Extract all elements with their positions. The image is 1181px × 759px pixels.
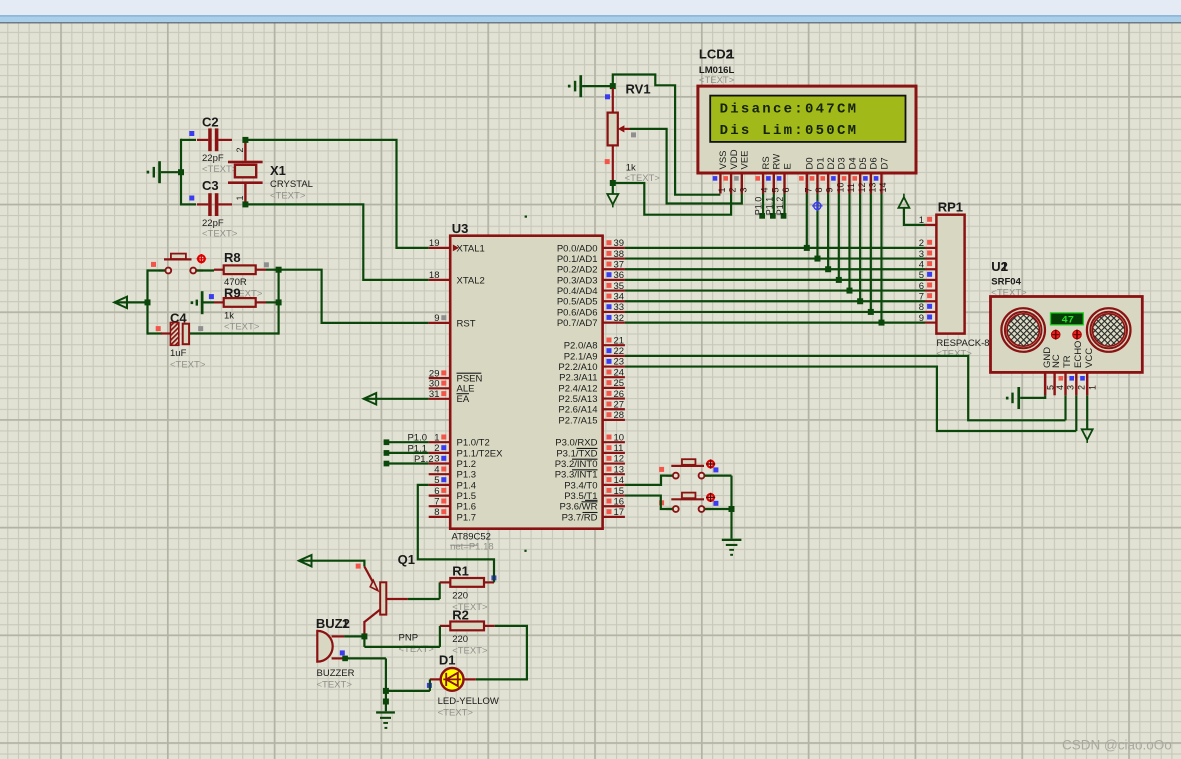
svg-text:P1.4: P1.4 (457, 480, 477, 491)
wire reset node vertical (148, 270, 279, 335)
svg-text:8: 8 (814, 187, 824, 192)
marker U3 pin 14 red (607, 477, 612, 482)
wire Q1 base to R1/R2 (408, 582, 440, 599)
marker R8 gray (264, 262, 269, 267)
origin dot near LCD (525, 216, 527, 218)
U3 pin 17 P3.7/RD (562, 507, 625, 523)
LCD pin 7 D0 (803, 157, 815, 193)
junction Q1 collector (361, 633, 367, 639)
svg-text:27: 27 (614, 399, 625, 410)
marker U3 pin 32 blue (607, 315, 612, 320)
terminal square LCD P1.0 (759, 213, 765, 219)
svg-text:XTAL1: XTAL1 (457, 243, 485, 254)
wire LCD P1.1 net (773, 194, 775, 216)
svg-text:38: 38 (614, 249, 625, 260)
buzzer BUZ1 (316, 616, 355, 691)
top toolbar strip (0, 0, 1181, 23)
svg-text:39: 39 (614, 238, 625, 249)
U3 pin 36 P0.3/AD3 (557, 270, 625, 286)
marker D1 blue (427, 683, 432, 688)
U3 pin 38 P0.1/AD1 (557, 249, 625, 265)
net label P1.0 (407, 433, 427, 444)
svg-text:P2.4/A12: P2.4/A12 (558, 383, 597, 394)
U3 pin 14 P3.4/T0 (564, 475, 625, 491)
svg-text:1uF: 1uF (170, 348, 187, 359)
marker U3 pin 10 red (607, 435, 612, 440)
crystal X1 (228, 140, 313, 205)
svg-text:10: 10 (614, 432, 625, 443)
svg-text:P3.1/TXD: P3.1/TXD (556, 448, 597, 459)
svg-text:ALE: ALE (457, 384, 475, 395)
junction R8 node (276, 267, 282, 273)
LCD pin 13 D6 (867, 157, 879, 193)
wire P0.7 to RP1 pin 9 (625, 321, 925, 323)
svg-text:P1.6: P1.6 (457, 502, 477, 513)
svg-text:P2.6/A14: P2.6/A14 (558, 405, 597, 416)
wire LCD D0 to P0.0 (806, 194, 808, 248)
svg-text:P3.3/INT1: P3.3/INT1 (555, 470, 598, 481)
marker button reset red (151, 262, 156, 267)
svg-text:P1.2: P1.2 (414, 454, 434, 465)
junction ground node (383, 699, 389, 705)
LCD pin 10 D3 (835, 157, 847, 193)
wire XTAL2 net (248, 204, 429, 280)
svg-text:36: 36 (614, 270, 625, 281)
X1 pin number 1 (235, 195, 245, 200)
svg-text:<TEXT>: <TEXT> (170, 359, 206, 370)
marker LCD pin 7 red (799, 176, 804, 181)
lcd LCD2 labels (699, 47, 735, 86)
U3 pin 19 XTAL1 (429, 238, 485, 254)
svg-text:18: 18 (429, 270, 440, 281)
svg-text:NC: NC (1051, 354, 1062, 368)
svg-text:CRYSTAL: CRYSTAL (270, 179, 313, 190)
svg-text:24: 24 (614, 367, 625, 378)
svg-text:1: 1 (1001, 259, 1008, 274)
svg-text:7: 7 (803, 187, 813, 192)
marker LCD pin 8 red (810, 176, 815, 181)
wire D1 cathode to ground node (386, 679, 430, 691)
svg-text:E: E (782, 163, 793, 169)
terminal square LCD P1.2 (781, 213, 787, 219)
ground symbol near RV1 (568, 75, 582, 97)
U3 pin 31 EA (429, 389, 470, 405)
svg-text:2: 2 (728, 187, 738, 192)
sensor U2 body (991, 297, 1143, 373)
junction X1 top (242, 137, 248, 143)
svg-text:<TEXT>: <TEXT> (452, 645, 488, 656)
wire RV1 wiper to LCD VEE (630, 129, 742, 204)
svg-text:P2.3/A11: P2.3/A11 (559, 373, 597, 384)
wire P0.5 to RP1 pin 7 (625, 300, 925, 302)
U3 pin 28 P2.7/A15 (558, 410, 624, 426)
wire LCD P1.2 net (783, 194, 785, 216)
power symbol at R9 left (191, 291, 214, 314)
wire P1.2 net stub (386, 462, 428, 464)
svg-text:11: 11 (614, 443, 624, 454)
marker LCD pin 4 red (755, 176, 760, 181)
wire collector to R2 (364, 626, 440, 647)
junction X1 bottom (242, 201, 248, 207)
blue origin crosshair (812, 201, 823, 212)
svg-text:13: 13 (867, 182, 877, 192)
marker button B2 red (659, 500, 664, 505)
svg-text:VCC: VCC (1084, 348, 1095, 368)
wire buzzer top to collector (344, 635, 362, 637)
svg-text:22pF: 22pF (202, 153, 224, 164)
marker U3 pin 11 red (607, 445, 612, 450)
wire P0.1 to RP1 pin 3 (625, 257, 925, 259)
marker RP1 pin 4 red (927, 261, 932, 266)
wire U2 GND to ground (1020, 395, 1045, 398)
U3 pin 2 P1.1/T2EX (429, 443, 503, 459)
svg-text:9: 9 (919, 313, 924, 324)
svg-text:D7: D7 (879, 157, 890, 169)
U3 pin 27 P2.6/A14 (558, 399, 624, 415)
U3 pin 15 P3.5/T1 (564, 486, 625, 502)
marker C2 pin blue (189, 131, 194, 136)
marker BUZ blue (340, 650, 345, 655)
svg-text:ECHO: ECHO (1073, 341, 1084, 368)
svg-text:6: 6 (919, 281, 924, 292)
U2 pin 5 GND (1042, 347, 1056, 396)
push button B1 (666, 459, 711, 478)
svg-text:<TEXT>: <TEXT> (270, 190, 306, 201)
svg-text:P1.1/T2EX: P1.1/T2EX (457, 448, 504, 459)
marker U3 pin 9 gray (441, 315, 446, 320)
U3 pin 25 P2.4/A12 (558, 378, 624, 394)
marker button B1 blue (713, 467, 718, 472)
U3 pin 16 P3.6/WR (559, 496, 624, 512)
svg-text:37: 37 (614, 259, 625, 270)
junction D6/P0.6 (868, 309, 874, 315)
U3 pin 30 ALE (429, 379, 475, 395)
svg-text:1: 1 (1087, 385, 1097, 390)
marker U3 pin 33 blue (607, 304, 612, 309)
marker U3 pin 25 red (607, 380, 612, 385)
LCD pin 11 D4 (846, 157, 858, 193)
potentiometer RV1 (608, 81, 661, 184)
U3 pin 34 P0.5/AD5 (557, 291, 625, 307)
RP1 pin 8 (919, 302, 937, 313)
terminal square P1.1 (384, 450, 390, 456)
wire buttons to ground (705, 476, 732, 539)
wire P1.1 net stub (386, 452, 428, 454)
wire P2.2 to ECHO (625, 367, 1076, 431)
svg-text:4: 4 (434, 464, 439, 475)
wire buzzer bottom to ground (345, 658, 386, 711)
wire P3.4 to button B1 (625, 476, 673, 485)
wire LCD D6 to P0.6 (870, 194, 872, 312)
svg-text:6: 6 (781, 187, 791, 192)
wire ECHO net (1075, 395, 1077, 431)
U3 pin 29 PSEN (429, 368, 483, 384)
U3 pin 8 P1.7 (429, 507, 476, 523)
svg-text:11: 11 (846, 183, 856, 192)
U3 pin 6 P1.5 (429, 486, 476, 502)
U3 pin 24 P2.3/A11 (559, 367, 625, 383)
marker U3 pin 22 blue (607, 348, 612, 353)
svg-text:34: 34 (614, 291, 625, 302)
lcd text line 1 (720, 101, 859, 117)
svg-text:12: 12 (614, 454, 625, 465)
wire R8 right to node (266, 269, 277, 271)
marker U3 pin 24 red (607, 370, 612, 375)
svg-text:Q1: Q1 (398, 552, 415, 567)
svg-text:3: 3 (1066, 385, 1076, 390)
marker button B2 blue (713, 501, 718, 506)
junction D7/P0.7 (878, 320, 884, 326)
junction D5/P0.5 (857, 298, 863, 304)
resistor R9 (214, 285, 266, 332)
U3 pin 5 P1.4 (429, 475, 476, 491)
svg-text:C2: C2 (202, 115, 219, 130)
U3 pin 13 P3.3/INT1 (555, 464, 625, 480)
svg-text:CSDN @ciao.oOo: CSDN @ciao.oOo (1062, 738, 1172, 753)
wire button right to R8 (196, 269, 214, 271)
RP1 pin 7 (919, 291, 937, 302)
marker U3 pin 7 red (441, 499, 446, 504)
marker LCD pin 1 blue (713, 176, 718, 181)
U3 pin 10 P3.0/RXD (555, 432, 625, 448)
U3 pin 12 P3.2/INT0 (555, 454, 625, 470)
marker LCD pin 10 blue (831, 176, 836, 181)
RP1 pin 4 (919, 259, 937, 270)
svg-text:15: 15 (614, 486, 625, 497)
net label LCD P1.0 (754, 197, 764, 216)
ground symbol left of C2/C3 (147, 161, 161, 183)
wire LCD P1.0 net (762, 194, 764, 216)
svg-text:<TEXT>: <TEXT> (399, 644, 435, 655)
marker U3 pin 3 blue (441, 456, 446, 461)
U3 pin 18 XTAL2 (429, 270, 485, 286)
svg-text:P2.0/A8: P2.0/A8 (564, 341, 598, 352)
svg-text:<TEXT>: <TEXT> (699, 75, 735, 86)
svg-text:P0.6/AD6: P0.6/AD6 (557, 307, 598, 318)
push button B2 (666, 493, 711, 512)
svg-text:VSS: VSS (718, 150, 729, 169)
svg-text:R1: R1 (452, 563, 469, 578)
marker U3 pin 17 red (607, 509, 612, 514)
wire RST to chip (279, 270, 429, 323)
marker U3 pin 1 red (441, 435, 446, 440)
svg-text:220: 220 (452, 591, 468, 602)
svg-text:P2.1/A9: P2.1/A9 (564, 351, 598, 362)
marker C4 gray (198, 326, 203, 331)
U2 pin 2 ECHO (1073, 341, 1087, 396)
svg-text:VEE: VEE (740, 150, 751, 169)
wire P0.4 to RP1 pin 6 (625, 289, 925, 291)
svg-text:32: 32 (614, 313, 625, 324)
wire P0.2 to RP1 pin 4 (625, 268, 925, 270)
svg-text:1: 1 (727, 47, 734, 62)
LCD pin 8 D1 (814, 157, 826, 193)
marker RP1 pin 9 blue (927, 314, 932, 319)
wire XTAL1 net (248, 140, 429, 248)
marker U3 pin 26 red (607, 391, 612, 396)
U3 pin 23 P2.2/A10 (558, 357, 624, 373)
net label LCD P1.2 (775, 197, 785, 216)
marker U3 pin 23 blue (607, 359, 612, 364)
LCD pin 14 D7 (878, 157, 890, 193)
svg-text:22pF: 22pF (202, 218, 224, 229)
svg-text:3: 3 (919, 249, 924, 260)
marker RP1 pin 2 red (927, 240, 932, 245)
watermark (1062, 738, 1172, 753)
marker LCD pin 3 gray (734, 176, 739, 181)
RP1 pin 1 (919, 215, 937, 226)
svg-text:5: 5 (919, 270, 924, 281)
svg-text:16: 16 (614, 496, 625, 507)
wire P1.4 to R1 (418, 485, 494, 583)
svg-text:8: 8 (434, 507, 439, 518)
marker RP1 pin 3 red (927, 250, 932, 255)
svg-text:7: 7 (919, 291, 924, 302)
svg-text:P1.3: P1.3 (457, 470, 477, 481)
wire LCD D1 to P0.1 (816, 194, 818, 259)
net label P1.1 (407, 443, 427, 454)
svg-text:P0.1/AD1: P0.1/AD1 (557, 254, 598, 265)
marker U3 pin 27 red (607, 402, 612, 407)
marker U3 pin 36 blue (607, 272, 612, 277)
terminal arrow Q1 emitter (299, 555, 365, 566)
marker button B1 red (659, 467, 664, 472)
marker U3 pin 12 red (607, 456, 612, 461)
wire LCD D3 to P0.3 (838, 194, 840, 280)
marker C4 red (156, 326, 161, 331)
marker RP1 pin 5 blue (927, 272, 932, 277)
marker U3 pin 8 red (441, 509, 446, 514)
svg-text:35: 35 (614, 281, 625, 292)
svg-text:28: 28 (614, 410, 625, 421)
svg-text:9: 9 (825, 187, 835, 192)
svg-text:26: 26 (614, 389, 625, 400)
capacitor C4 (161, 310, 206, 370)
svg-text:RP1: RP1 (938, 199, 963, 214)
svg-text:Disance:047CM: Disance:047CM (720, 101, 859, 117)
wire P0.6 to RP1 pin 8 (625, 311, 925, 313)
marker RV1 bottom red (605, 159, 610, 164)
power-down terminal under RV1 (607, 186, 618, 208)
svg-text:6: 6 (434, 486, 439, 497)
RP1 pin 3 (919, 249, 937, 260)
LCD pin 2 VDD (728, 149, 740, 193)
svg-text:D3: D3 (837, 157, 848, 169)
sensor U2 labels (991, 259, 1027, 299)
wire LCD D4 to P0.4 (848, 194, 850, 291)
transistor Q1 PNP (364, 552, 434, 655)
marker Q1 emitter red (356, 564, 361, 569)
svg-text:VDD: VDD (729, 149, 740, 169)
marker RP1 pin 6 red (927, 282, 932, 287)
U3 pin 21 P2.0/A8 (564, 335, 625, 351)
marker U3 pin 31 red (441, 391, 446, 396)
marker U3 pin 34 red (607, 294, 612, 299)
button reset actuator (197, 254, 207, 264)
svg-text:25: 25 (614, 378, 625, 389)
svg-text:D1: D1 (815, 157, 826, 169)
svg-text:P0.3/AD3: P0.3/AD3 (557, 275, 598, 286)
svg-text:U3: U3 (452, 221, 469, 236)
junction D1 node (383, 688, 389, 694)
capacitor C3 (197, 178, 238, 239)
wire VCC net (1086, 395, 1088, 429)
marker RP1 pin 7 red (927, 293, 932, 298)
svg-text:P1.2: P1.2 (457, 459, 477, 470)
svg-text:1: 1 (235, 195, 245, 200)
svg-text:D4: D4 (847, 157, 858, 169)
svg-text:P0.5/AD5: P0.5/AD5 (557, 297, 598, 308)
U3 pin 22 P2.1/A9 (564, 346, 625, 362)
mcu U3 AT89C52 body (450, 221, 602, 543)
marker U3 pin 4 red (441, 467, 446, 472)
U3 pin 26 P2.5/A13 (558, 389, 624, 405)
marker U3 pin 30 red (441, 381, 446, 386)
marker LCD pin 14 blue (874, 176, 879, 181)
svg-text:4: 4 (760, 187, 770, 192)
svg-text:P1.1: P1.1 (407, 443, 427, 454)
marker RP1 pin 1 red (927, 217, 932, 222)
svg-text:D6: D6 (869, 157, 880, 169)
marker U2 pin 2 blue (1080, 376, 1085, 381)
wire button left to C4 node (148, 269, 166, 334)
junction D2/P0.2 (825, 266, 831, 272)
svg-text:P3.2/INT0: P3.2/INT0 (555, 459, 598, 470)
net label P1.2 (414, 454, 434, 465)
svg-text:RESPACK-8: RESPACK-8 (936, 338, 989, 349)
svg-text:D0: D0 (805, 157, 816, 169)
svg-text:1k: 1k (626, 163, 636, 174)
R8 TEXT label (227, 289, 263, 300)
svg-text:D1: D1 (439, 652, 456, 667)
marker RV1 wiper gray (631, 132, 636, 137)
svg-text:P0.4/AD4: P0.4/AD4 (557, 286, 598, 297)
svg-text:<TEXT>: <TEXT> (202, 164, 238, 175)
svg-text:RV1: RV1 (626, 81, 651, 96)
marker U3 pin 6 red (441, 488, 446, 493)
svg-text:P1.0: P1.0 (407, 433, 427, 444)
wire P2.1 to TR (625, 356, 1066, 420)
svg-text:7: 7 (434, 496, 439, 507)
lcd text line 2 (720, 123, 859, 139)
wire R9 right to node (266, 301, 277, 303)
svg-text:P3.4/T0: P3.4/T0 (564, 480, 597, 491)
marker R1 right blue (491, 575, 496, 580)
junction buttons ground node (729, 506, 735, 512)
terminal arrow EA (364, 393, 429, 404)
LCD pin 1 VSS (717, 150, 729, 193)
wire LCD D7 to P0.7 (880, 194, 882, 323)
U3 pin 33 P0.6/AD6 (557, 302, 625, 318)
marker LCD pin 2 red (723, 176, 728, 181)
marker U3 pin 35 red (607, 283, 612, 288)
svg-text:5: 5 (770, 187, 780, 192)
svg-text:BUZZER: BUZZER (317, 668, 355, 679)
respack RP1 body (936, 199, 989, 359)
svg-text:P0.2/AD2: P0.2/AD2 (557, 265, 598, 276)
svg-text:P2.5/A13: P2.5/A13 (558, 394, 597, 405)
marker LCD pin 5 blue (766, 176, 771, 181)
wire P0.3 to RP1 pin 5 (625, 279, 925, 281)
U2 indicator right (1073, 330, 1082, 340)
marker U3 pin 28 red (607, 412, 612, 417)
wire P1.0 net stub (386, 441, 428, 443)
svg-text:P3.0/RXD: P3.0/RXD (555, 438, 597, 449)
marker U3 pin 38 red (607, 251, 612, 256)
terminal square P1.0 (384, 439, 390, 445)
marker U3 pin 37 red (607, 262, 612, 267)
U2 left transducer (1001, 308, 1045, 352)
